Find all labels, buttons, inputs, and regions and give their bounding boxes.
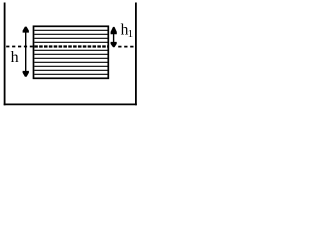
- svg-text:h: h: [11, 49, 19, 66]
- svg-text:h1: h1: [121, 22, 134, 40]
